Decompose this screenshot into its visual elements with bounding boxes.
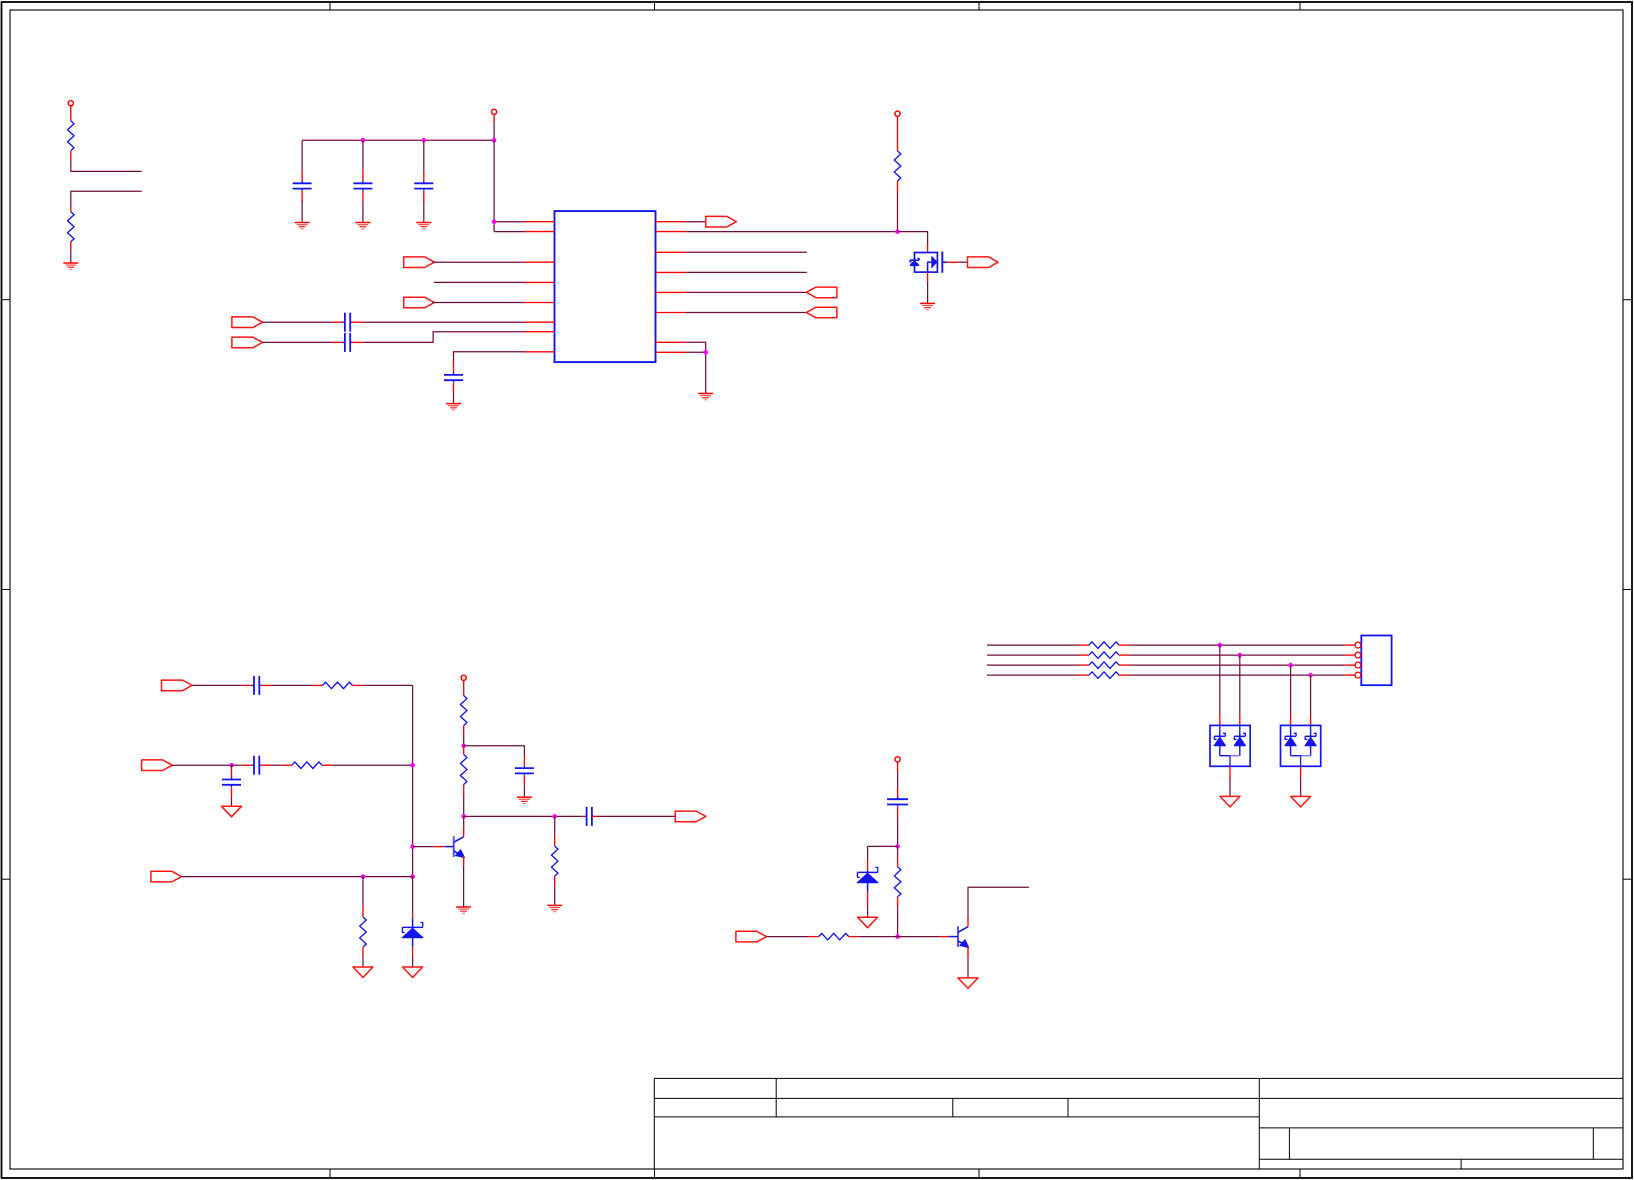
port OUT1 bbox=[706, 216, 737, 227]
capacitor C10 bbox=[515, 755, 534, 797]
junction row4 bbox=[1308, 673, 1313, 678]
ground GD2 bbox=[353, 967, 373, 978]
resistor R11 bbox=[819, 933, 849, 940]
wire Q3 collector bbox=[968, 887, 1029, 927]
wire R3 to node bbox=[897, 191, 899, 231]
wire node to Q1 drain bbox=[898, 232, 928, 253]
junction collector node bbox=[461, 814, 466, 819]
wire gate out bbox=[947, 261, 967, 263]
power terminal P5 bbox=[895, 757, 900, 762]
wire bus vertical bbox=[412, 685, 414, 876]
IC U1 right pins bbox=[656, 222, 686, 353]
wire xout jog bbox=[352, 332, 525, 343]
ground GC1 bbox=[295, 223, 310, 229]
wire row1 to connector bbox=[1119, 644, 1355, 646]
wire pin14 bbox=[686, 312, 807, 314]
capacitor C1 bbox=[293, 140, 312, 222]
diode D2 zener bbox=[857, 846, 898, 916]
junction bus-2 bbox=[422, 138, 427, 143]
ground GC6 bbox=[446, 404, 461, 410]
junction bus-1 bbox=[361, 138, 366, 143]
ground GC3 bbox=[416, 223, 431, 229]
wire TVS drop 3 bbox=[1290, 665, 1292, 725]
wire pin5 bbox=[432, 302, 524, 304]
junction row2 bus bbox=[410, 763, 415, 768]
title block bbox=[654, 1078, 1623, 1169]
wire pin8 to cap bbox=[454, 352, 525, 363]
capacitor C12 bbox=[887, 762, 908, 846]
wire row2 c bbox=[261, 764, 292, 766]
wire ctrl b bbox=[849, 936, 949, 938]
diode D1 zener bbox=[402, 877, 423, 967]
resistor R7 bbox=[460, 680, 467, 745]
wire row2 d bbox=[322, 764, 413, 766]
wire D3 gnd bbox=[1229, 766, 1231, 796]
wire IC gnd pins bbox=[686, 342, 706, 393]
junction row1 bbox=[1218, 643, 1223, 648]
port AOUT bbox=[675, 811, 706, 822]
wire VCC to IC pins bbox=[494, 140, 524, 231]
wire pin12 stub bbox=[686, 271, 807, 273]
wire collector bbox=[463, 816, 465, 836]
wire row4 to connector bbox=[1119, 674, 1355, 676]
resistor R2 bbox=[68, 207, 75, 251]
wire output node bbox=[464, 815, 582, 817]
junction base node E bbox=[895, 934, 900, 939]
resistor R5 bbox=[292, 762, 322, 769]
wire xin left bbox=[263, 321, 345, 323]
junction output R9 bbox=[552, 814, 557, 819]
junction row2 cap bbox=[229, 763, 234, 768]
wire pin3 bbox=[432, 261, 524, 263]
wire row2 a bbox=[172, 764, 231, 766]
capacitor C9 bbox=[252, 764, 254, 766]
junction gnd pin bbox=[703, 350, 708, 355]
wire bus row2 bbox=[987, 654, 1089, 656]
junction row3 bbox=[1288, 663, 1293, 668]
capacitor C4 bbox=[343, 321, 345, 323]
resistor R12 bbox=[1089, 642, 1119, 649]
ground GU1 bbox=[698, 394, 713, 400]
resistor R4 bbox=[323, 682, 353, 689]
wire TVS drop 1 bbox=[1219, 645, 1221, 725]
wire bus row3 bbox=[987, 664, 1089, 666]
wire node to C10 bbox=[464, 746, 525, 755]
wire xin right bbox=[352, 321, 525, 323]
wire to ground bbox=[70, 251, 72, 262]
wire TVS drop 4 bbox=[1310, 675, 1312, 725]
capacitor C2 bbox=[353, 140, 372, 222]
ground GC2 bbox=[355, 223, 370, 229]
power terminal P1 bbox=[68, 101, 73, 106]
wire bus row1 bbox=[987, 644, 1089, 646]
wire row1 b bbox=[261, 684, 323, 686]
port XOUT bbox=[232, 337, 263, 348]
port OUT3 bbox=[806, 307, 837, 318]
ground GA bbox=[63, 263, 78, 269]
connector J1 bbox=[1355, 636, 1392, 686]
port CTRL bbox=[736, 931, 767, 942]
junction row3 bus bbox=[410, 874, 415, 879]
junction base bus bbox=[410, 844, 415, 849]
junction R7 node bbox=[461, 743, 466, 748]
wire pin4 stub bbox=[434, 281, 524, 283]
junction VCC pin bbox=[492, 219, 497, 224]
capacitor C8 shunt bbox=[222, 765, 241, 806]
resistor R14 bbox=[1089, 662, 1119, 669]
wire TVS drop 2 bbox=[1239, 655, 1241, 725]
wire Q1 source bbox=[927, 272, 929, 303]
port SIG1 bbox=[162, 680, 193, 691]
ground GQ3 bbox=[958, 978, 978, 989]
wire to port AOUT bbox=[598, 815, 676, 817]
junction row2 bbox=[1238, 653, 1243, 658]
port SIG2 bbox=[142, 760, 173, 771]
wire pin13 bbox=[686, 291, 807, 293]
junction zener node bbox=[895, 844, 900, 849]
wire pin9 out bbox=[686, 221, 706, 223]
ground GQ2 bbox=[456, 907, 471, 913]
power terminal P3 bbox=[895, 111, 900, 116]
wire bus row4 bbox=[987, 674, 1089, 676]
diode array D4 bbox=[1281, 725, 1321, 766]
ground GR9 bbox=[547, 905, 562, 911]
wire VCC vertical bbox=[493, 115, 495, 141]
ground GC10 bbox=[517, 797, 532, 803]
port IN2 bbox=[404, 297, 435, 308]
wire pin10 long bbox=[686, 231, 898, 233]
ground GD1 bbox=[222, 806, 242, 817]
ground GQ1 bbox=[920, 303, 935, 309]
resistor R13 bbox=[1089, 652, 1119, 659]
capacitor C6 bbox=[444, 363, 463, 404]
resistor R3 bbox=[894, 116, 901, 191]
junction bus-3 bbox=[492, 138, 497, 143]
frame zone ticks right bbox=[1623, 300, 1632, 880]
wire row3 to connector bbox=[1119, 664, 1355, 666]
resistor R10 bbox=[894, 846, 901, 936]
wire row2 to connector bbox=[1119, 654, 1355, 656]
junction node Q1 bbox=[895, 229, 900, 234]
wire ctrl a bbox=[767, 936, 819, 938]
wire row3 bbox=[182, 876, 413, 878]
capacitor C11 bbox=[581, 807, 597, 826]
power terminal P4 bbox=[461, 675, 466, 680]
wire Q3 emitter bbox=[967, 947, 969, 978]
ground GF2 bbox=[1291, 796, 1311, 807]
resistor R15 bbox=[1089, 672, 1119, 679]
wire pin11 stub bbox=[686, 251, 807, 253]
IC U1 left pins bbox=[524, 222, 555, 352]
capacitor C5 bbox=[343, 341, 345, 343]
ground GE1 bbox=[858, 917, 878, 928]
wire row1 c bbox=[353, 684, 413, 686]
port GATE bbox=[968, 257, 999, 268]
power terminal P2 bbox=[492, 109, 497, 114]
wire Q2 emitter bbox=[463, 857, 465, 907]
wire row1 a bbox=[192, 684, 252, 686]
wire VCC bus bbox=[302, 139, 494, 141]
frame zone ticks top bbox=[330, 2, 1300, 10]
wire node A2 bbox=[71, 191, 142, 207]
diode array D3 bbox=[1210, 725, 1250, 766]
transistor Q2 bbox=[444, 836, 464, 857]
port OUT2 bbox=[806, 287, 837, 298]
wire row2 b bbox=[232, 764, 253, 766]
wire D4 gnd bbox=[1300, 766, 1302, 796]
wire node A1 bbox=[71, 160, 142, 171]
resistor R6 bbox=[360, 877, 367, 967]
ground GD3 bbox=[403, 967, 423, 978]
frame zone ticks left bbox=[2, 300, 10, 880]
junction row3 R bbox=[361, 874, 366, 879]
transistor Q1 bbox=[910, 252, 947, 273]
port IN1 bbox=[404, 257, 435, 268]
capacitor C3 bbox=[414, 140, 433, 222]
ground GF1 bbox=[1220, 796, 1240, 807]
port SIG3 bbox=[151, 871, 182, 882]
wire base bbox=[413, 846, 445, 848]
IC U1 bbox=[555, 211, 656, 362]
frame zone ticks bottom bbox=[330, 1169, 1300, 1178]
wire xout left bbox=[263, 341, 345, 343]
port XIN bbox=[232, 317, 263, 328]
resistor R9 bbox=[551, 816, 558, 904]
resistor R8 bbox=[460, 746, 467, 817]
resistor R1 bbox=[68, 106, 75, 161]
capacitor C7 bbox=[252, 684, 254, 686]
transistor Q3 bbox=[949, 926, 969, 947]
